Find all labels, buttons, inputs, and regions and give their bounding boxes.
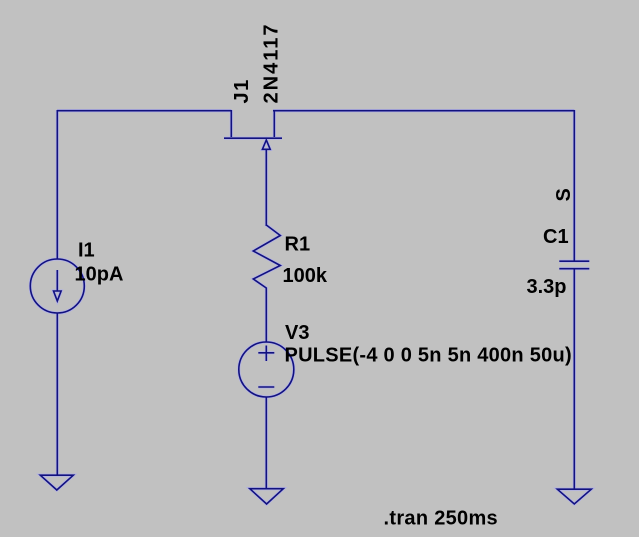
svg-text:R1: R1 [285,234,311,256]
svg-text:100k: 100k [283,265,328,287]
svg-text:PULSE(-4 0 0 5n 5n 400n 50u): PULSE(-4 0 0 5n 5n 400n 50u) [285,345,572,367]
svg-text:V3: V3 [285,322,309,344]
svg-text:2N4117: 2N4117 [261,23,283,104]
svg-text:I1: I1 [78,240,95,262]
svg-text:3.3p: 3.3p [527,276,567,298]
svg-text:.tran 250ms: .tran 250ms [384,508,498,530]
svg-text:S: S [553,188,575,201]
svg-text:J1: J1 [231,78,253,103]
svg-text:10pA: 10pA [75,264,124,286]
svg-text:C1: C1 [543,226,569,248]
